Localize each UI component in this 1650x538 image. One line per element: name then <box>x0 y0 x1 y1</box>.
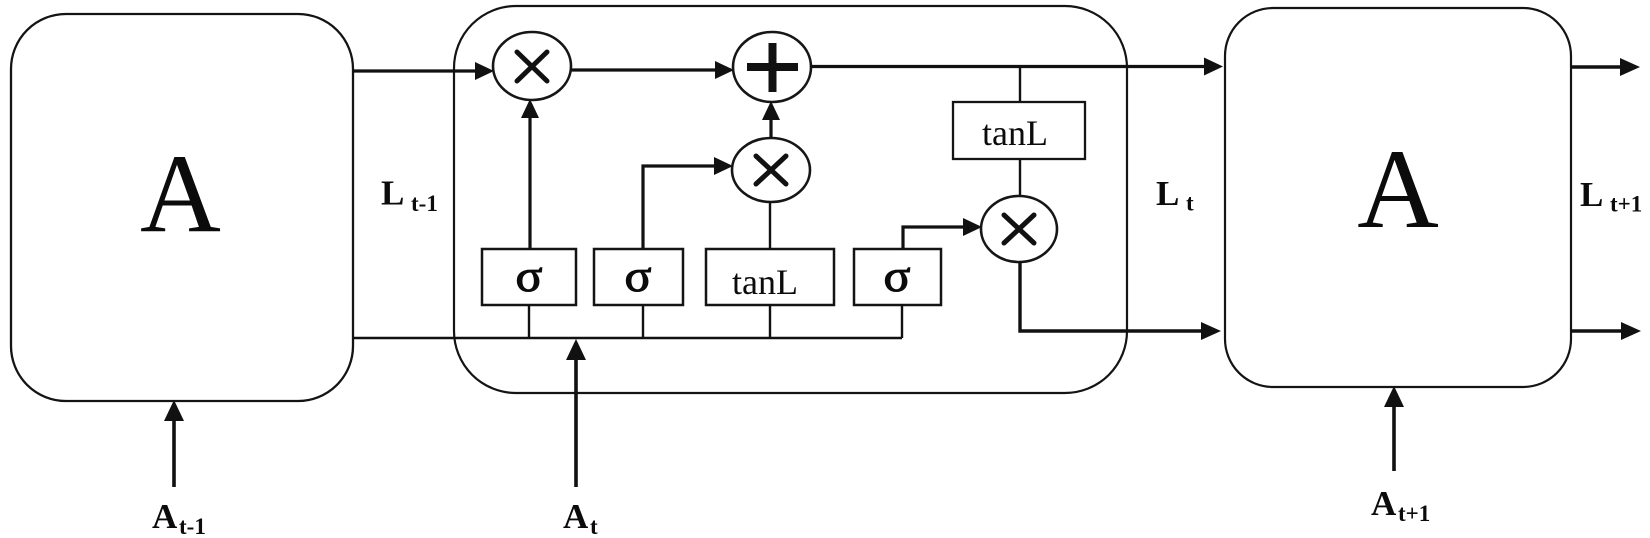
svg-text:t: t <box>590 514 598 538</box>
tanL gate T1 box (bottom) <box>706 249 834 305</box>
output arrow top right <box>1571 58 1640 76</box>
svg-text:σ: σ <box>625 250 652 301</box>
bottom input rail wire from block A through cell <box>353 337 902 339</box>
input arrow At+1 <box>1384 386 1404 471</box>
wire S1 up into M1 <box>521 99 539 249</box>
stub wire S1 to rail <box>528 305 530 338</box>
svg-text:t-1: t-1 <box>411 191 438 216</box>
label At <box>563 497 598 538</box>
label At-1 <box>152 497 206 538</box>
output arrow bottom right <box>1571 322 1641 340</box>
svg-text:L: L <box>1156 174 1179 213</box>
svg-text:A: A <box>152 497 178 536</box>
wire M3 output down and right into next block A <box>1020 262 1221 340</box>
wire S2 up and right into multiply node M2 <box>643 157 733 249</box>
svg-text:A: A <box>1357 127 1439 252</box>
label Lt-1 <box>381 174 438 217</box>
label Lt+1 <box>1580 175 1642 217</box>
label Lt <box>1156 174 1194 216</box>
svg-text:L: L <box>1580 175 1603 214</box>
multiply node M1 <box>493 32 571 100</box>
svg-text:t: t <box>1186 191 1194 216</box>
svg-text:A: A <box>140 132 221 256</box>
block A (t-1) <box>11 14 353 401</box>
wire S3 up and right into multiply node M3 <box>903 218 982 249</box>
svg-text:t-1: t-1 <box>179 514 206 538</box>
svg-text:tanL: tanL <box>982 113 1048 153</box>
wire Lt-1 from block A into multiply node M1 <box>353 62 494 80</box>
svg-text:A: A <box>563 497 589 536</box>
wire T1 up to M2 <box>769 202 771 249</box>
input arrow At-1 <box>164 400 184 487</box>
sigma gate S3 box <box>854 249 941 305</box>
label At+1 <box>1371 484 1430 526</box>
plus node P1 <box>733 32 811 102</box>
wire M2 up into P1 <box>762 101 780 138</box>
wire M1 to plus node P1 <box>571 61 734 79</box>
multiply node M3 <box>981 196 1057 262</box>
stub wire S3 to rail <box>901 305 903 338</box>
wire cell-state line down into tanL gate T2 <box>1019 68 1021 102</box>
svg-text:σ: σ <box>884 250 911 301</box>
tanL gate T2 box (top) <box>953 102 1085 159</box>
svg-text:t+1: t+1 <box>1610 192 1642 217</box>
sigma gate S1 box <box>482 249 576 305</box>
input arrow At <box>566 339 586 487</box>
stub wire S2 to rail <box>642 305 644 338</box>
svg-text:t+1: t+1 <box>1398 501 1430 526</box>
stub wire T1 to rail <box>769 305 771 338</box>
wire T2 down to M3 <box>1019 159 1021 196</box>
wire cell state from P1 to next block A, arrow at block edge <box>810 58 1223 76</box>
svg-text:A: A <box>1371 484 1397 523</box>
svg-text:tanL: tanL <box>732 262 798 302</box>
svg-text:σ: σ <box>516 250 543 301</box>
sigma gate S2 box <box>594 249 683 305</box>
LSTM cell body <box>454 6 1127 393</box>
svg-text:L: L <box>381 174 404 213</box>
block A (t+1) <box>1225 8 1571 387</box>
multiply node M2 <box>732 138 810 202</box>
